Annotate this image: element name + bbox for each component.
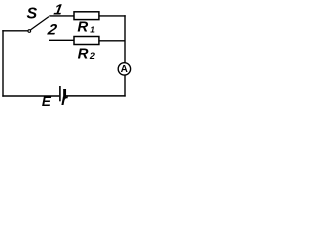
resistor R1 <box>74 12 99 20</box>
resistor R2 <box>74 37 99 45</box>
svg-text:r: r <box>61 92 68 107</box>
battery E: short thick plate <box>63 89 66 98</box>
switch S lever <box>31 17 50 30</box>
wire: right vertical lower (ammeter to bottom) <box>124 75 126 96</box>
wire: R1 right to top-right corner <box>99 15 126 17</box>
svg-text:1: 1 <box>90 26 95 35</box>
wire: top-left horizontal to switch <box>2 30 28 32</box>
wire: contact 1 stub to R1 <box>49 15 74 17</box>
svg-text:E: E <box>42 94 52 107</box>
svg-text:A: A <box>121 64 128 75</box>
wire: bottom left to battery <box>2 95 59 97</box>
wire: R2 right to right vertical <box>99 40 125 42</box>
wire: contact 2 stub to R2 <box>49 39 75 41</box>
svg-text:2: 2 <box>89 51 95 61</box>
battery E: long plate <box>59 86 61 101</box>
ammeter A <box>118 63 130 75</box>
wire: right vertical upper (corner to ammeter) <box>124 15 126 62</box>
switch S pivot contact <box>28 30 31 33</box>
svg-text:R: R <box>78 46 89 63</box>
svg-text:2: 2 <box>46 21 59 38</box>
wire: bottom right from battery <box>66 95 126 97</box>
svg-text:R: R <box>77 19 88 36</box>
svg-text:S: S <box>26 6 37 23</box>
wire: left vertical <box>2 30 4 97</box>
